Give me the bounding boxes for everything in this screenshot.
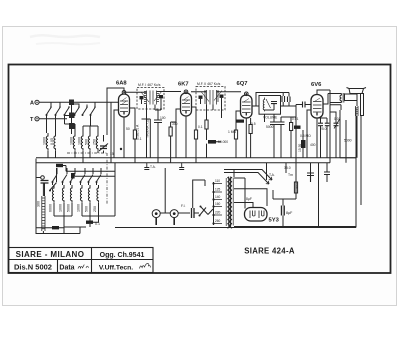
svg-text:50.000: 50.000 — [218, 140, 228, 144]
capacitor det1 — [270, 122, 278, 125]
band switch S1a contacts — [46, 102, 96, 116]
svg-text:M.F. II 467 Kc/s: M.F. II 467 Kc/s — [197, 82, 221, 86]
speaker — [347, 88, 367, 122]
svg-text:SIARE 424-A: SIARE 424-A — [244, 247, 295, 256]
svg-text:160: 160 — [215, 202, 221, 206]
main bus lower — [36, 162, 213, 164]
svg-text:25.0: 25.0 — [320, 127, 327, 131]
svg-text:5000: 5000 — [344, 139, 352, 143]
svg-text:5000: 5000 — [266, 125, 274, 129]
svg-text:0.05: 0.05 — [50, 138, 54, 145]
wire under 6A8 — [111, 102, 150, 163]
svg-text:1000: 1000 — [78, 137, 82, 145]
resistor 6K7 cathode — [169, 127, 172, 136]
wire L1 stem — [71, 105, 73, 134]
wire right top risers — [340, 110, 356, 163]
antenna terminal A — [30, 100, 39, 106]
capacitor 6V6 cathode — [318, 123, 323, 126]
output transformer T3 — [328, 93, 357, 103]
grid cap wire 6A8 — [107, 88, 124, 135]
wire bottoms row1 to lower — [48, 151, 98, 163]
rotated labels IFT1 — [136, 119, 150, 138]
main bus upper — [36, 157, 213, 159]
svg-text:500: 500 — [85, 139, 89, 145]
faint smudge above frame — [30, 35, 100, 37]
svg-text:0.1: 0.1 — [137, 137, 142, 141]
svg-text:Ogg. Ch.9541: Ogg. Ch.9541 — [100, 252, 145, 259]
handwritten date — [78, 265, 89, 269]
svg-text:0.01: 0.01 — [334, 117, 341, 121]
wire row2 stems — [53, 168, 102, 185]
wire antenna line — [39, 101, 118, 103]
resistor AVC dark — [56, 164, 63, 167]
svg-text:1 MΩ: 1 MΩ — [228, 130, 236, 134]
svg-text:110: 110 — [215, 179, 220, 183]
gang dash line — [67, 152, 107, 154]
svg-text:0.1: 0.1 — [198, 125, 203, 129]
svg-text:125: 125 — [215, 188, 221, 192]
bottom bus — [115, 227, 356, 229]
svg-text:6V6: 6V6 — [311, 82, 322, 88]
tube 6Q7 — [237, 81, 253, 118]
svg-text:50: 50 — [126, 127, 130, 131]
svg-text:F.I.: F.I. — [181, 204, 185, 208]
svg-text:T.A.: T.A. — [150, 165, 156, 169]
wire avc lines — [63, 166, 115, 177]
capacitor 6V6 bypass — [325, 123, 330, 126]
mains switch — [199, 206, 209, 217]
wire mains up — [193, 180, 205, 208]
resistor dark left — [52, 226, 59, 229]
oscillator switch S1b — [52, 175, 102, 184]
tube 6V6 — [311, 82, 323, 118]
svg-text:35.0: 35.0 — [284, 166, 291, 170]
capacitor C line — [41, 181, 49, 197]
bus right section — [213, 158, 356, 163]
tube 6A8 — [116, 81, 130, 118]
wire jacks — [160, 168, 170, 213]
resistor 6Q7 grid — [234, 130, 237, 139]
svg-text:8µF: 8µF — [286, 211, 293, 215]
RF coil L2 — [46, 133, 98, 150]
svg-text:Tm: Tm — [288, 173, 293, 177]
wire B+ risers — [267, 105, 331, 228]
svg-text:260: 260 — [215, 219, 221, 223]
svg-text:0.5 MΩ: 0.5 MΩ — [300, 134, 311, 138]
power transformer T4 — [226, 177, 233, 228]
svg-text:140: 140 — [215, 195, 221, 199]
scattered value labels — [110, 116, 341, 208]
capacitor hang 1 — [144, 163, 149, 170]
wire speaker field — [330, 105, 341, 110]
resistor under 6Q7 — [236, 120, 244, 123]
wire left bottom bus — [36, 227, 80, 234]
voltage selector — [208, 179, 222, 225]
svg-text:M.F. I 467 Kc/s: M.F. I 467 Kc/s — [138, 83, 161, 87]
svg-text:0.5: 0.5 — [251, 122, 256, 126]
wire 6K7 leads — [176, 107, 196, 158]
wire earth lead — [39, 118, 67, 120]
title block table — [9, 248, 154, 273]
svg-text:6K7: 6K7 — [178, 82, 189, 88]
wire IFT2 leads — [191, 92, 241, 120]
resistor blob det4 — [294, 126, 301, 129]
svg-text:250: 250 — [93, 206, 97, 212]
capacitor det2 — [278, 122, 285, 125]
svg-text:8µF: 8µF — [246, 197, 252, 201]
capacitor below IFT1 — [154, 120, 162, 123]
detector box — [259, 96, 281, 120]
svg-text:300: 300 — [295, 183, 299, 189]
phono jack J1 — [152, 210, 160, 225]
wire 5Y3 heater lines — [224, 170, 272, 185]
svg-text:1000: 1000 — [59, 204, 63, 212]
svg-text:0.01: 0.01 — [292, 117, 299, 121]
tone capacitor — [334, 123, 339, 126]
svg-text:V.Uff.Tecn.: V.Uff.Tecn. — [99, 265, 133, 272]
svg-text:TRMA A 712: TRMA A 712 — [146, 119, 150, 138]
resistor det3 — [290, 123, 293, 131]
antenna coil L1 — [69, 100, 75, 130]
wire row1 stems — [47, 116, 99, 134]
resistor right mid — [301, 140, 306, 148]
svg-text:6000: 6000 — [49, 204, 53, 212]
svg-text:250: 250 — [93, 139, 97, 145]
svg-text:Dis.N 5002: Dis.N 5002 — [14, 263, 52, 272]
right edge vertical — [356, 108, 361, 228]
svg-text:5Y3: 5Y3 — [269, 218, 280, 224]
svg-text:500: 500 — [85, 206, 89, 212]
svg-text:15: 15 — [110, 152, 114, 156]
wire 6A8 leads — [114, 108, 135, 158]
svg-text:SB.01 A: SB.01 A — [136, 124, 140, 137]
small caps right area — [307, 173, 314, 176]
wire 6Q7 leads — [236, 106, 256, 158]
IF transformer T2 — [196, 87, 225, 111]
svg-text:1000: 1000 — [77, 204, 81, 212]
earth terminal T — [30, 117, 39, 123]
svg-text:220: 220 — [215, 211, 221, 215]
resistor osc grid dark — [71, 173, 75, 179]
wire transformer secondary leads — [234, 178, 356, 227]
coupling cap to 6V6 — [303, 102, 306, 108]
rectifier 5Y3 — [245, 208, 280, 224]
svg-text:SIARE - MILANO: SIARE - MILANO — [16, 250, 85, 259]
svg-text:400: 400 — [310, 143, 316, 147]
phono jack J2 — [170, 210, 178, 225]
value labels row2 — [49, 204, 98, 212]
mains capacitor — [192, 208, 195, 218]
svg-text:5000: 5000 — [67, 204, 71, 212]
svg-text:1000: 1000 — [70, 137, 74, 145]
svg-text:Data: Data — [59, 265, 74, 272]
svg-text:A: A — [30, 101, 34, 107]
oscillator coils L3 — [52, 185, 98, 202]
resistor below IFT2 — [205, 120, 208, 129]
resistor R osc — [86, 221, 93, 224]
filter capacitor 8uF — [282, 199, 294, 228]
svg-text:300: 300 — [172, 122, 178, 126]
diode caps right of 6Q7 — [282, 93, 290, 103]
wire row2 bottoms — [54, 203, 115, 221]
wire IFT1 leads — [124, 92, 181, 158]
IF transformer T1 — [137, 88, 164, 110]
handwritten initials — [140, 263, 151, 268]
wire 6V6 leads — [307, 90, 330, 158]
tube 6K7 — [178, 82, 192, 117]
resistor 6A8 cathode — [133, 130, 136, 139]
ballast coil left — [37, 183, 46, 234]
trimmer capacitor CT1 — [99, 135, 108, 153]
svg-text:6Q7: 6Q7 — [237, 81, 248, 87]
wire field coil down — [356, 121, 358, 158]
svg-text:T.A.: T.A. — [269, 173, 275, 177]
capacitor hang 2 — [179, 163, 184, 170]
svg-text:300: 300 — [37, 201, 41, 207]
left block: line switch — [36, 159, 57, 235]
svg-text:VOLUME: VOLUME — [263, 116, 278, 120]
wire links — [65, 116, 99, 127]
wires det area — [256, 93, 296, 107]
svg-text:6A8: 6A8 — [116, 81, 127, 87]
svg-text:1000: 1000 — [43, 137, 47, 145]
filter choke — [273, 126, 296, 199]
value labels row1 — [43, 137, 97, 145]
svg-text:100: 100 — [160, 116, 166, 120]
